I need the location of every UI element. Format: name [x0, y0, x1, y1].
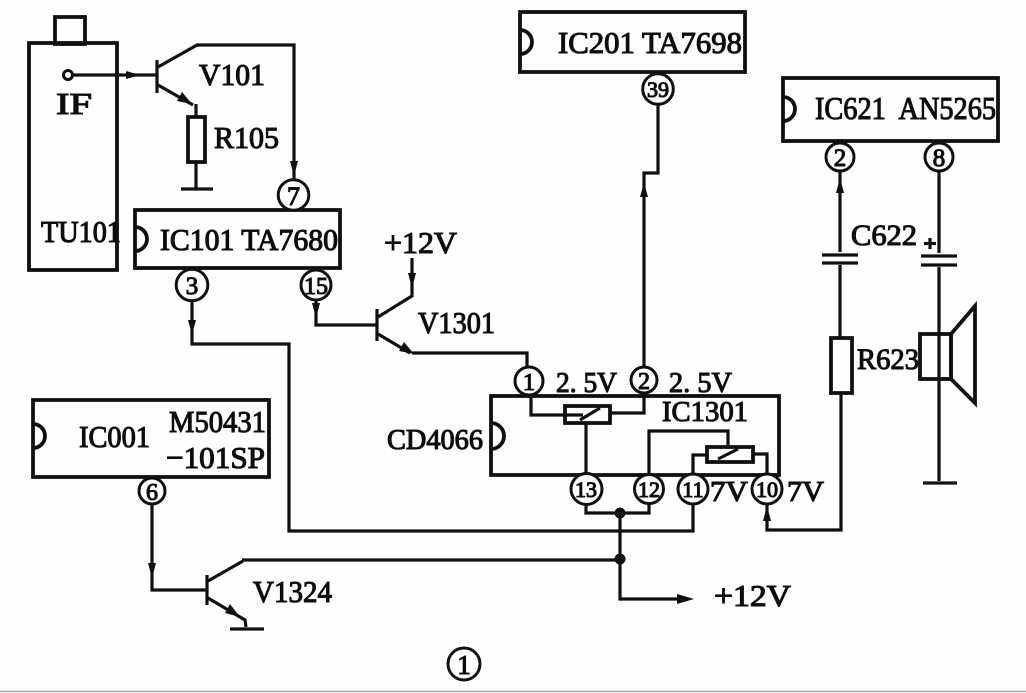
polarity plus of output capacitor [924, 238, 936, 249]
wire pin8 of IC621 down [937, 171, 940, 253]
svg-text:IC1301: IC1301 [662, 396, 748, 428]
wire capacitor to speaker [937, 267, 940, 380]
wire IF to V101 base with arrow [73, 71, 156, 79]
pin 11 of IC1301 [678, 474, 708, 504]
ground below R105 [181, 187, 213, 190]
wire pin15 to V1301 base [312, 300, 376, 325]
svg-text:15: 15 [304, 274, 328, 300]
svg-text:R623: R623 [857, 343, 919, 376]
svg-text:TU101: TU101 [41, 214, 121, 249]
wire pin13 and pin12 to +12V feed [586, 503, 649, 513]
svg-text:IF: IF [56, 86, 92, 121]
label IC621 AN5265 [815, 90, 996, 126]
label +12V bottom [714, 578, 792, 613]
svg-text:2: 2 [638, 369, 650, 395]
svg-text:2. 5V: 2. 5V [556, 367, 617, 399]
svg-text:10: 10 [756, 477, 778, 502]
label 2.5V at pin2 [669, 367, 732, 399]
transistor V1301 emitter with arrow [378, 334, 414, 354]
pin 12 of IC1301 [635, 475, 664, 504]
svg-text:1: 1 [457, 650, 471, 680]
IC1301 notch [491, 423, 504, 449]
label IC101 TA7680 [160, 222, 338, 257]
ground below V1324 [230, 627, 264, 630]
svg-text:7V: 7V [787, 476, 824, 508]
svg-text:7: 7 [287, 182, 300, 211]
IC101 TA7680 box [135, 210, 340, 268]
svg-text:V101: V101 [199, 57, 265, 92]
svg-text:IC001: IC001 [79, 419, 150, 454]
speaker [920, 306, 975, 403]
svg-text:+12V: +12V [384, 225, 458, 260]
wire switch1 control to pin13 [584, 423, 587, 474]
svg-text:3: 3 [186, 273, 199, 300]
pin 7 of IC101 [278, 180, 309, 211]
svg-text:V1301: V1301 [418, 305, 495, 340]
junction dot upper [615, 508, 626, 519]
wire pin1 into switch1 [531, 394, 583, 415]
figure number circled 1 [448, 648, 480, 680]
svg-text:2. 5V: 2. 5V [669, 367, 732, 399]
IC621 AN5265 box [783, 78, 998, 141]
IC201 notch [520, 30, 532, 54]
svg-text:12: 12 [638, 477, 660, 502]
label IF [56, 86, 92, 121]
wire R623 to pin10 with up arrow [763, 393, 841, 530]
transistor V101 base bar [155, 60, 158, 93]
label R623 [857, 343, 919, 376]
IC001 notch [33, 424, 45, 448]
IC101 notch [135, 227, 147, 251]
wire pin12 control to switch2 [649, 431, 728, 475]
pin 2 of IC1301 [631, 367, 657, 395]
svg-text:−101SP: −101SP [166, 440, 265, 475]
capacitor C622 [822, 255, 858, 263]
wire C622 to R623 [838, 265, 841, 338]
wire V101 collector to pin7 [196, 45, 298, 181]
label TU101 [41, 214, 121, 249]
label 2.5V at pin1 [556, 367, 617, 399]
label M50431 [169, 404, 266, 439]
resistor R623 [831, 338, 852, 393]
pin 3 of IC101 [176, 269, 208, 301]
wire V1324 collector to junction [242, 558, 620, 561]
label 7V at pin11 [710, 476, 748, 508]
svg-text:R105: R105 [214, 120, 279, 155]
svg-text:CD4066: CD4066 [387, 424, 483, 456]
analog switch 1 [565, 406, 610, 423]
IC201 TA7698 box [520, 12, 745, 72]
svg-text:+12V: +12V [714, 578, 792, 613]
svg-text:M50431: M50431 [169, 404, 266, 439]
wire pin39 to pin2 of IC1301 with up arrow [640, 104, 658, 367]
pin 8 of IC621 [925, 143, 953, 172]
pin 2 of IC621 [826, 143, 854, 172]
tuner TU101 body [29, 43, 117, 270]
svg-text:IC201 TA7698: IC201 TA7698 [558, 25, 742, 60]
svg-text:V1324: V1324 [253, 574, 332, 609]
label CD4066 [387, 424, 483, 456]
label R105 [214, 120, 279, 155]
label -101SP [166, 440, 265, 475]
ground below speaker [923, 481, 957, 484]
pin 39 of IC201 [643, 74, 674, 105]
label IC001 [79, 419, 150, 454]
IC001 M50431 box [33, 400, 269, 477]
svg-text:13: 13 [575, 477, 597, 502]
tuner TU101 antenna connector box [55, 17, 85, 44]
wire pin11 into switch2 [693, 455, 708, 475]
pin 15 of IC101 [301, 270, 331, 300]
wire V1301 emitter to pin1 [412, 353, 527, 367]
svg-text:2: 2 [834, 145, 847, 172]
wire switch1 to pin2 [610, 393, 644, 413]
node IF terminal [64, 71, 73, 80]
transistor V1324 base bar [205, 575, 208, 605]
IC621 notch [783, 97, 795, 121]
transistor V1301 collector [378, 258, 416, 317]
label C622 [851, 219, 917, 252]
label IC201 TA7698 [558, 25, 742, 60]
junction dot lower [615, 554, 626, 565]
label V1324 [253, 574, 332, 609]
wire speaker to ground [937, 379, 940, 481]
label IC1301 [662, 396, 748, 428]
transistor V1324 emitter with arrow [208, 598, 246, 627]
svg-text:39: 39 [647, 77, 669, 102]
svg-text:IC101 TA7680: IC101 TA7680 [160, 222, 338, 257]
transistor V1301 base bar [375, 309, 378, 341]
wire pin3 to pin11 of IC1301 [188, 300, 693, 531]
wire junction down to +12V arrow [620, 513, 694, 604]
wire switch2 to pin10 [753, 454, 767, 475]
wire R105 to ground [194, 162, 197, 188]
transistor V1324 collector [208, 561, 243, 581]
label V1301 [418, 305, 495, 340]
svg-text:1: 1 [523, 370, 535, 396]
transistor V101 emitter with arrow [158, 85, 193, 105]
label 7V at pin10 [787, 476, 824, 508]
pin 10 of IC1301 [752, 474, 782, 504]
pin 6 of IC001 [139, 478, 165, 506]
pin 13 of IC1301 [571, 474, 602, 505]
svg-text:C622: C622 [851, 219, 917, 252]
svg-text:8: 8 [933, 145, 946, 172]
svg-text:7V: 7V [710, 476, 748, 508]
analog switch 2 [707, 447, 753, 462]
svg-text:6: 6 [146, 480, 158, 506]
label V101 [199, 57, 265, 92]
wire pin6 to V1324 base with down arrow [148, 504, 206, 590]
resistor R105 [188, 117, 205, 162]
pin 1 of IC1301 [515, 367, 543, 396]
label +12V top [384, 225, 458, 260]
IC1301 CD4066 box [491, 396, 779, 475]
svg-text:IC621 AN5265: IC621 AN5265 [815, 90, 996, 126]
svg-text:11: 11 [682, 477, 703, 502]
capacitor at pin8 [921, 256, 957, 265]
scan artifact line at page bottom [0, 691, 1026, 693]
wire pin2 of IC621 down to C622 with up arrow [836, 171, 844, 252]
transistor V101 collector [158, 45, 197, 67]
wire emitter to R105 [194, 104, 197, 117]
